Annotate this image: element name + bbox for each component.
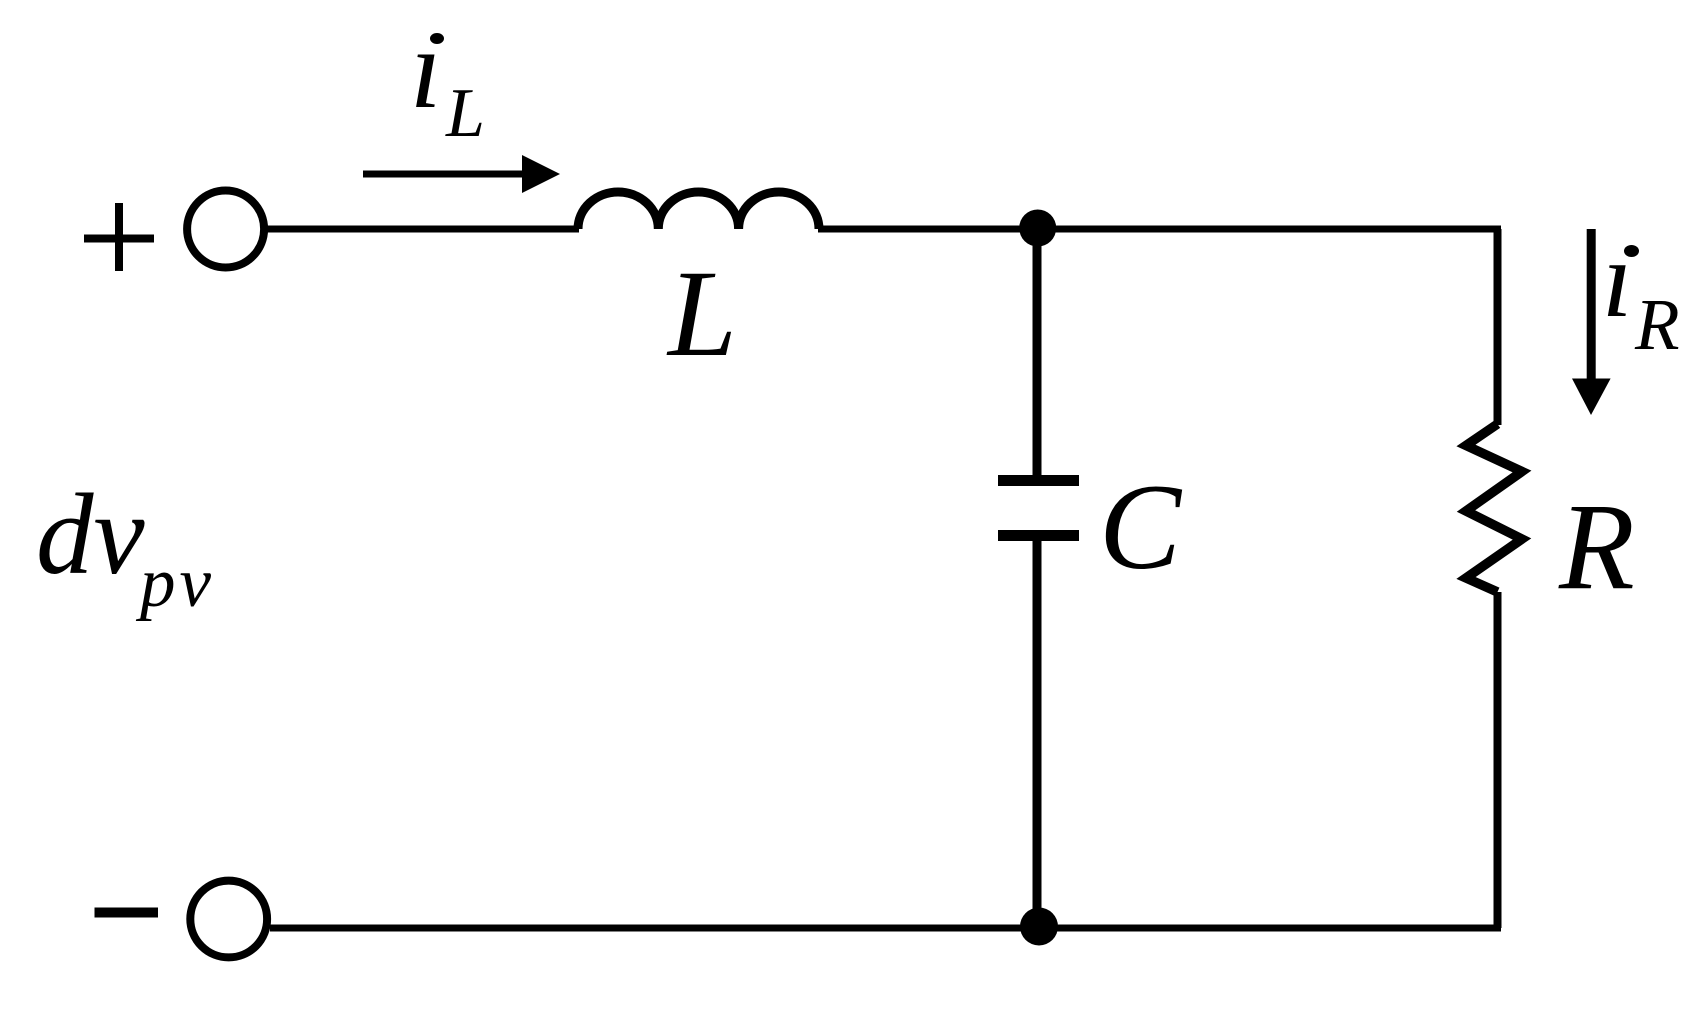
svg-text:R: R <box>1558 478 1635 615</box>
svg-text:dv: dv <box>36 471 146 598</box>
svg-text:L: L <box>666 245 737 382</box>
svg-text:pv: pv <box>135 544 215 622</box>
svg-text:ı: ı <box>410 5 442 132</box>
svg-text:R: R <box>1634 284 1680 365</box>
svg-text:C: C <box>1099 458 1183 595</box>
svg-text:ı: ı <box>1602 218 1633 340</box>
svg-text:L: L <box>445 75 485 152</box>
